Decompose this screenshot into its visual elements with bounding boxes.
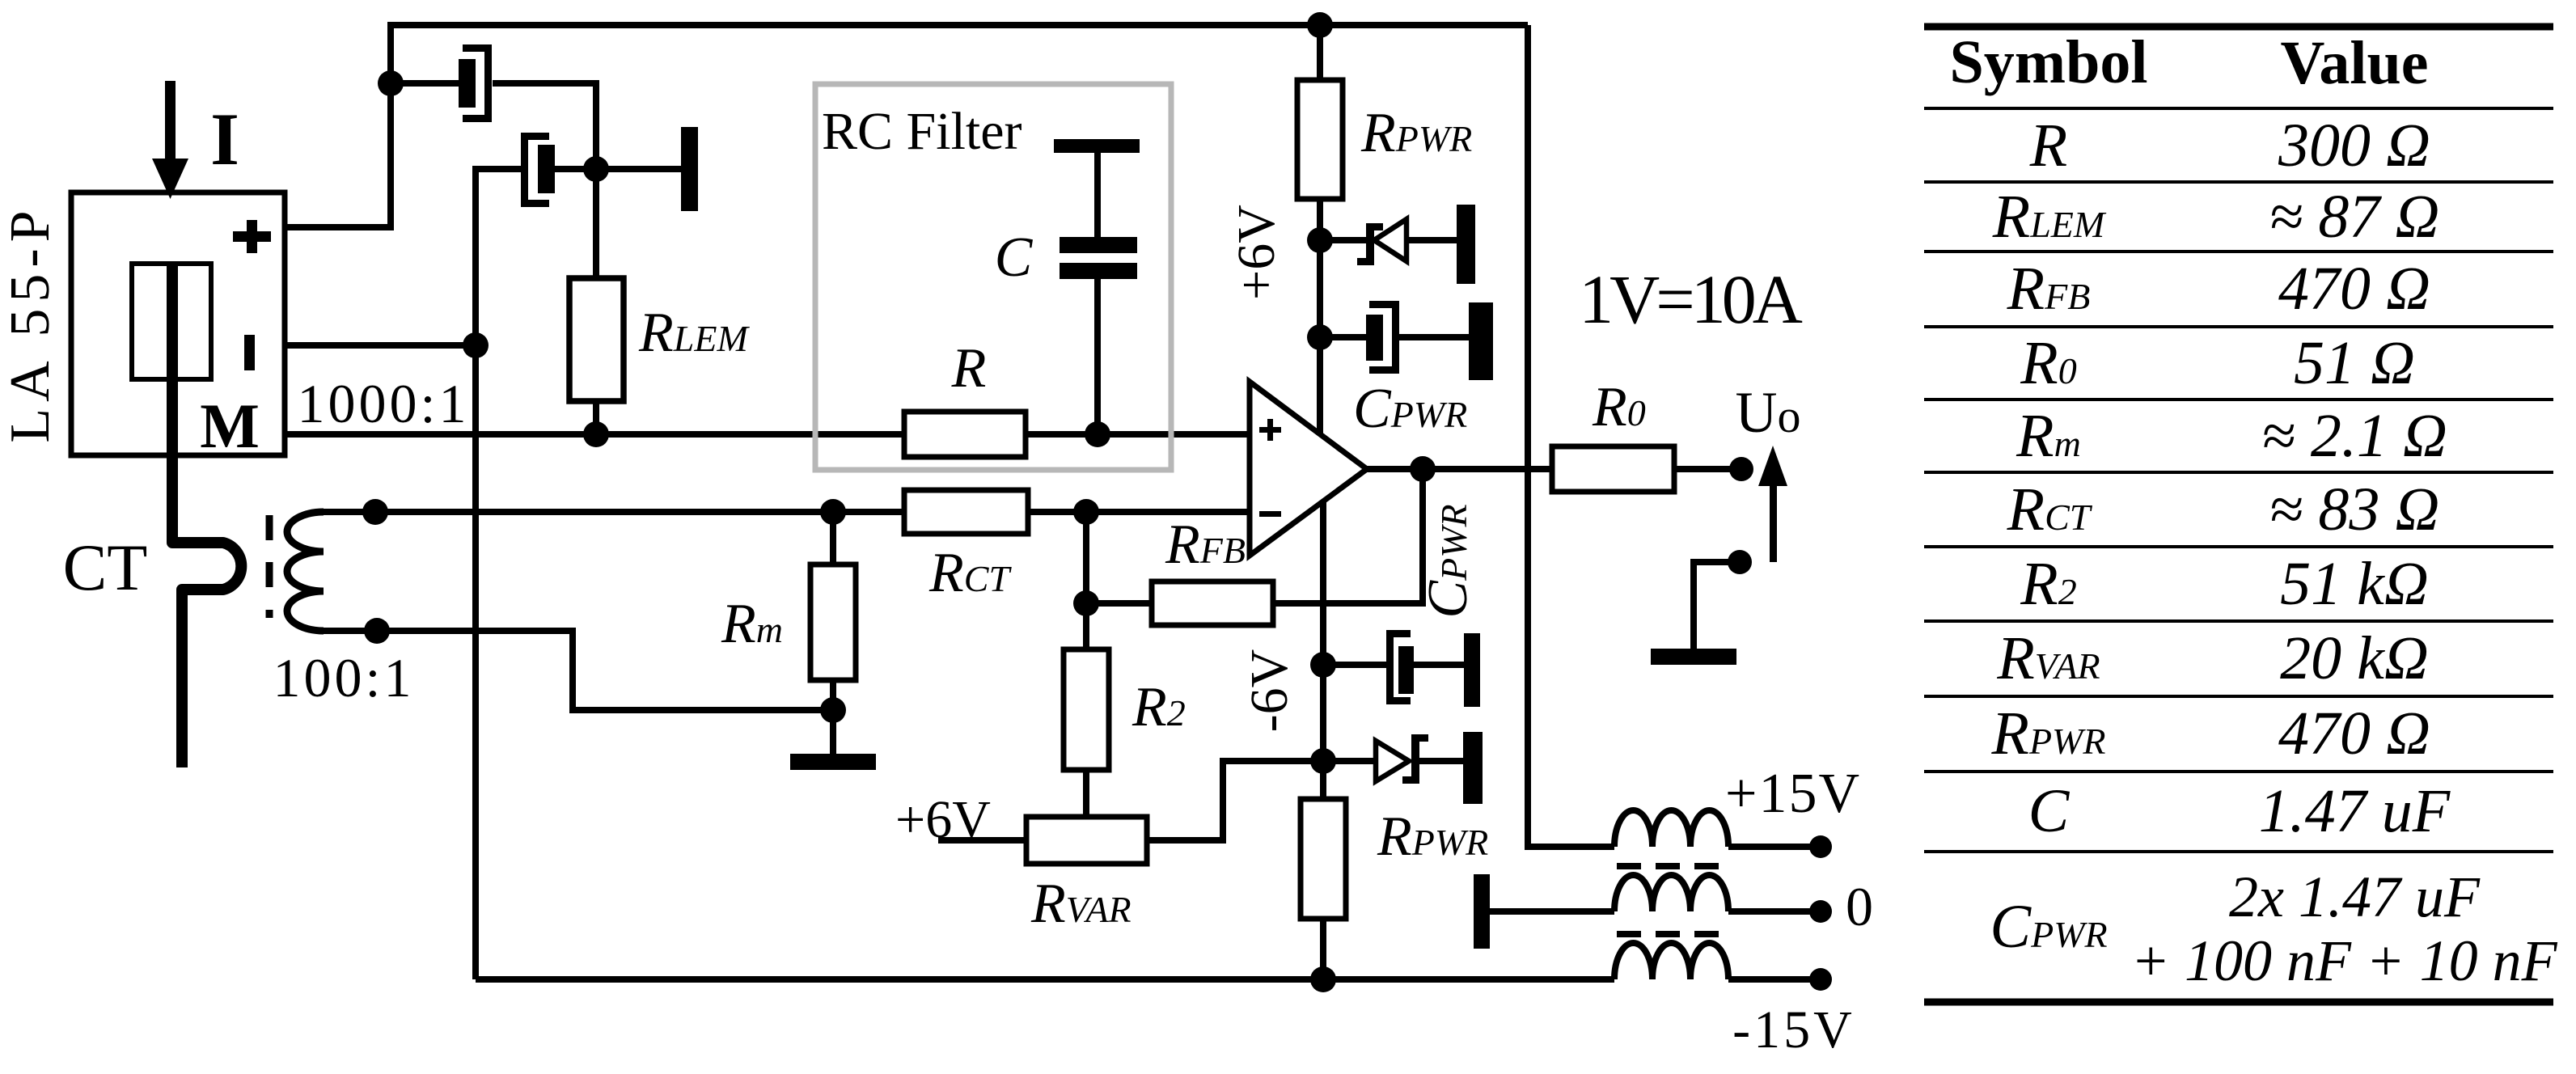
wire Rm bottom to ground <box>830 680 836 754</box>
terminal -15V <box>1809 968 1832 991</box>
node bottom rail RPWR <box>1310 966 1336 992</box>
svg-text:Uo: Uo <box>1736 380 1801 445</box>
svg-text:RVAR: RVAR <box>1030 873 1131 935</box>
wire C bottom <box>1094 279 1101 434</box>
svg-text:1.47 uF: 1.47 uF <box>2259 777 2451 845</box>
wire RLEM bottom <box>593 401 599 434</box>
node CT bottom lead <box>364 618 390 644</box>
svg-text:RFB: RFB <box>2007 255 2091 323</box>
core dashes above coil3 <box>1617 931 1719 937</box>
resistor RFB <box>1152 581 1273 625</box>
node -6V cap <box>1310 652 1336 678</box>
resistor RPWR bottom <box>1301 799 1346 919</box>
resistor R <box>904 412 1026 457</box>
svg-text:470 Ω: 470 Ω <box>2278 255 2430 323</box>
svg-text:1V=10A: 1V=10A <box>1579 260 1803 338</box>
resistor RLEM <box>569 278 624 401</box>
svg-text:-15V: -15V <box>1732 1000 1855 1059</box>
wire RPWR2 bottom <box>1320 919 1326 979</box>
svg-text:C: C <box>995 226 1034 289</box>
svg-text:100:1: 100:1 <box>273 647 415 708</box>
svg-text:470 Ω: 470 Ω <box>2278 700 2430 767</box>
core dashes above coil2 <box>1617 863 1719 869</box>
svg-text:51 kΩ: 51 kΩ <box>2280 550 2429 618</box>
inductor L2 0 <box>1614 875 1728 911</box>
wire R to opamp plus <box>1026 431 1250 438</box>
wire coil1 right to terminal <box>1728 844 1821 850</box>
svg-text:1000:1: 1000:1 <box>298 373 470 434</box>
node RCT left <box>820 499 846 525</box>
wire +15V rail right side down <box>1528 25 1614 847</box>
svg-text:R2: R2 <box>2020 550 2076 618</box>
node -6V diode <box>1310 748 1336 774</box>
inductor L1 +15V <box>1614 810 1728 847</box>
ground bar below Rm <box>790 754 876 770</box>
RC filter grey box <box>815 84 1171 470</box>
svg-text:+6V: +6V <box>1227 205 1286 300</box>
resistor RPWR top <box>1297 80 1343 199</box>
wire Uo ground return <box>1694 562 1740 649</box>
wire CT secondary top lead <box>324 509 904 515</box>
node Rm bottom <box>820 697 846 723</box>
wire M terminal to R <box>285 431 904 438</box>
wire top +15V rail <box>285 25 1528 227</box>
svg-text:CT: CT <box>63 531 148 604</box>
svg-text:RPWR: RPWR <box>1360 102 1472 164</box>
wire cap3 to ground <box>1399 334 1469 340</box>
node opamp output <box>1410 456 1436 482</box>
svg-text:Symbol: Symbol <box>1950 28 2148 96</box>
wire C top <box>1094 153 1101 237</box>
svg-text:≈ 83 Ω: ≈ 83 Ω <box>2269 476 2440 543</box>
svg-text:+ 100 nF + 10 nF: + 100 nF + 10 nF <box>2130 928 2557 993</box>
node RLEM bottom <box>583 421 609 447</box>
svg-text:≈ 87 Ω: ≈ 87 Ω <box>2269 183 2440 251</box>
resistor R2 <box>1064 649 1109 770</box>
svg-text:RPWR: RPWR <box>1377 805 1488 868</box>
wire opamp top supply <box>1317 199 1323 435</box>
terminal 0 <box>1809 900 1832 923</box>
svg-text:LA 55-P: LA 55-P <box>0 204 61 442</box>
svg-text:RFB: RFB <box>1165 514 1246 576</box>
svg-text:Rm: Rm <box>721 593 783 655</box>
terminal Uo return <box>1728 550 1752 574</box>
wire inverting node down <box>1083 512 1089 649</box>
capacitor C plates <box>1060 237 1137 279</box>
wire cap4 left <box>1323 662 1386 668</box>
LEM sensor LA55-P box <box>71 192 285 455</box>
wire opamp output <box>1367 466 1552 472</box>
node RLEM top / cap2 <box>583 156 609 182</box>
svg-text:Value: Value <box>2280 29 2428 97</box>
svg-text:RLEM: RLEM <box>638 302 750 364</box>
value table <box>1924 27 2553 1002</box>
op-amp U1 <box>1250 382 1367 556</box>
wire diode1 anode <box>1320 237 1366 243</box>
inductor L3 -15V <box>1614 943 1728 979</box>
wire Rm top <box>830 512 836 564</box>
resistor Rm <box>810 564 856 680</box>
svg-text:CPWR: CPWR <box>1417 504 1479 618</box>
terminal Uo <box>1729 457 1753 481</box>
svg-text:M: M <box>200 391 260 461</box>
svg-text:R0: R0 <box>1592 376 1646 438</box>
LA55-P inner core box <box>132 264 211 379</box>
svg-text:RPWR: RPWR <box>1991 700 2106 767</box>
svg-text:≈ 2.1 Ω: ≈ 2.1 Ω <box>2261 402 2447 470</box>
node C bottom <box>1085 421 1110 447</box>
wire RCT to opamp minus <box>1028 509 1250 515</box>
svg-text:I: I <box>210 98 239 180</box>
ground bar at D1 <box>1457 205 1475 284</box>
wire coil2 right to terminal <box>1728 908 1821 915</box>
CT primary thick conductor <box>172 266 241 767</box>
table rows <box>1990 112 2557 993</box>
wire cap4 to ground <box>1412 662 1464 668</box>
wire cap2 right to ground <box>555 166 681 172</box>
wire CT secondary bottom lead <box>324 631 833 710</box>
wire cap2 left lead <box>476 169 521 979</box>
svg-text:R: R <box>951 337 987 400</box>
svg-text:RVAR: RVAR <box>1996 624 2100 692</box>
svg-text:0: 0 <box>1846 876 1873 937</box>
wire R0 to Uo terminal <box>1674 466 1741 472</box>
wire RFB left <box>1086 600 1152 607</box>
diode D2 (to -6V rail) <box>1376 734 1428 784</box>
svg-text:RCT: RCT <box>928 542 1012 604</box>
wire RPWR1 top <box>1317 25 1323 80</box>
node cap1 branch <box>378 70 404 96</box>
node inverting input <box>1073 499 1099 525</box>
wire diode2 to ground <box>1419 758 1463 764</box>
svg-text:+6V: +6V <box>895 790 991 849</box>
potentiometer RVAR <box>1026 817 1147 864</box>
ground bar at CPWR top <box>1469 302 1493 380</box>
wire minus terminal <box>285 342 476 349</box>
svg-text:51 Ω: 51 Ω <box>2294 329 2415 397</box>
capacitor C1 (polarized, top left) <box>459 49 489 119</box>
svg-text:CPWR: CPWR <box>1990 893 2107 961</box>
resistor R0 <box>1552 446 1674 492</box>
ground under Uo <box>1651 649 1736 665</box>
primary conductor arrow I <box>152 81 188 199</box>
Uo arrow <box>1758 446 1787 562</box>
wire RVAR left +6V stub <box>938 837 1026 844</box>
ground bar at 0 line <box>1474 874 1490 949</box>
svg-text:CPWR: CPWR <box>1353 378 1467 440</box>
node minus terminal <box>463 332 489 358</box>
wire bottom -15V rail <box>476 976 1614 983</box>
wire 0 line <box>1490 908 1614 915</box>
diode D1 (to +6V rail) <box>1357 219 1406 265</box>
node RFB left <box>1073 590 1099 616</box>
svg-text:20 kΩ: 20 kΩ <box>2280 624 2429 692</box>
svg-text:+15V: +15V <box>1725 763 1861 825</box>
wire R2 bottom to RVAR wiper <box>1083 770 1089 817</box>
ground bar at CPWR bottom <box>1464 633 1480 707</box>
wire coil3 right to terminal <box>1728 976 1821 983</box>
ground bar above C <box>1054 139 1140 153</box>
wire cap1 to RLEM vertical <box>493 83 596 278</box>
svg-text:R: R <box>2029 112 2067 180</box>
wire diode1 to ground <box>1405 237 1457 243</box>
capacitor CPWR (top, polarized) <box>1366 305 1396 370</box>
svg-text:2x 1.47 uF: 2x 1.47 uF <box>2229 865 2481 929</box>
svg-text:C: C <box>2028 777 2071 845</box>
wire RFB right to output <box>1273 469 1423 603</box>
terminal +15V <box>1809 835 1832 858</box>
svg-text:R2: R2 <box>1131 676 1186 738</box>
node top rail RPWR <box>1307 12 1333 38</box>
node +6V diode <box>1307 227 1333 253</box>
svg-text:R0: R0 <box>2020 329 2076 397</box>
wire opamp bottom supply <box>1320 502 1326 799</box>
ground bar right of C2 <box>681 127 698 211</box>
svg-text:RLEM: RLEM <box>1992 183 2107 251</box>
CT secondary winding <box>287 512 324 631</box>
wire cap1 branch <box>391 80 459 87</box>
ground bar at D2 <box>1463 732 1483 804</box>
minus terminal mark <box>244 335 255 370</box>
wire diode2 anode <box>1323 758 1376 764</box>
wire cap3 left <box>1320 334 1366 340</box>
svg-text:-6V: -6V <box>1240 649 1299 733</box>
svg-text:RCT: RCT <box>2007 476 2093 543</box>
resistor RCT <box>904 490 1028 534</box>
CT core dashed line <box>266 515 273 618</box>
svg-text:300 Ω: 300 Ω <box>2278 112 2430 180</box>
svg-text:RC Filter: RC Filter <box>822 102 1022 161</box>
capacitor C2 (polarized, below C1) <box>525 137 556 204</box>
svg-text:Rm: Rm <box>2016 402 2081 470</box>
capacitor CPWR (bottom, polarized) <box>1390 634 1415 701</box>
wire RVAR right to -6V rail <box>1147 761 1323 840</box>
node CT top lead <box>362 499 388 525</box>
node +6V cap <box>1307 324 1333 350</box>
plus terminal mark <box>233 220 271 253</box>
